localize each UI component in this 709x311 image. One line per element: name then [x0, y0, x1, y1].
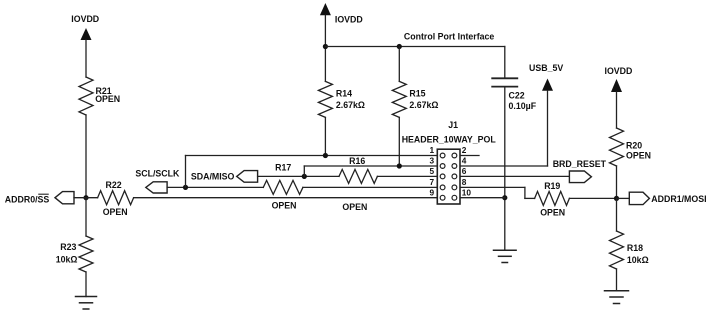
- pin 7: [440, 185, 445, 190]
- wire control port top: [325, 46, 504, 48]
- node top-left junction: [323, 44, 328, 49]
- svg-text:R20: R20: [626, 141, 642, 151]
- wire R19 to ADDR1 node: [569, 197, 616, 199]
- node SCL junction: [183, 185, 188, 190]
- wire R14 to pin1 line: [324, 117, 326, 155]
- svg-text:IOVDD: IOVDD: [335, 14, 363, 24]
- wire SDA junction up to pin3 line: [303, 166, 305, 176]
- pin 5: [440, 174, 445, 179]
- svg-text:1: 1: [430, 145, 435, 155]
- svg-text:R22: R22: [106, 180, 122, 190]
- svg-text:C22: C22: [509, 91, 525, 101]
- wire R15 to pin3 line: [398, 117, 400, 166]
- svg-text:OPEN: OPEN: [103, 207, 128, 217]
- ground (left): [76, 297, 97, 310]
- pin 8: [452, 185, 457, 190]
- svg-text:R14: R14: [336, 89, 352, 99]
- wire pin 1 line: [186, 155, 438, 157]
- wire pin 8 line: [460, 186, 525, 188]
- resistor R17: [263, 163, 303, 211]
- wire R23 to ground: [85, 272, 87, 297]
- power IOVDD (middle): [320, 3, 363, 24]
- node ADDR1 junction: [614, 196, 619, 201]
- svg-text:R18: R18: [627, 243, 643, 253]
- svg-text:5: 5: [430, 166, 435, 176]
- wire USB_5V down: [547, 91, 549, 166]
- svg-text:10kΩ: 10kΩ: [627, 255, 649, 265]
- wire pin 8 drop: [524, 187, 526, 198]
- pin 9: [440, 195, 445, 200]
- svg-text:J1: J1: [448, 120, 458, 130]
- ground (right): [605, 291, 629, 304]
- svg-text:2.67kΩ: 2.67kΩ: [336, 100, 365, 110]
- svg-text:OPEN: OPEN: [272, 201, 297, 211]
- svg-text:OPEN: OPEN: [95, 94, 120, 104]
- node R15 pin3 junction: [397, 163, 402, 168]
- wire IOVDD right to R20: [616, 92, 618, 128]
- pin 6: [452, 174, 457, 179]
- node pin10 ground junction: [502, 195, 507, 200]
- connector J1 HEADER_10WAY_POL: [402, 120, 497, 204]
- resistor R22: [98, 180, 134, 217]
- svg-text:R15: R15: [409, 89, 425, 99]
- pin 10: [452, 195, 457, 200]
- resistor R21: [79, 77, 120, 115]
- wire drop to R19: [525, 197, 535, 199]
- wire pin 4 line: [460, 165, 548, 167]
- port ADDR0/SS: [5, 192, 74, 205]
- svg-text:9: 9: [430, 187, 435, 197]
- svg-text:R23: R23: [60, 242, 76, 252]
- svg-text:OPEN: OPEN: [626, 151, 651, 161]
- wire node to ADDR1 tag: [617, 197, 630, 199]
- svg-text:3: 3: [430, 156, 435, 166]
- wire R16 to header pin 5: [377, 175, 437, 177]
- svg-text:HEADER_10WAY_POL: HEADER_10WAY_POL: [402, 134, 497, 144]
- wire R18 to ground: [616, 269, 618, 291]
- svg-text:SCL/SCLK: SCL/SCLK: [135, 168, 180, 178]
- wire pin 10 stub: [460, 197, 505, 199]
- svg-text:R16: R16: [349, 156, 365, 166]
- ground (middle): [494, 250, 517, 262]
- resistor R23: [56, 236, 93, 272]
- svg-text:2: 2: [462, 145, 467, 155]
- resistor R15: [392, 47, 438, 118]
- node R14 pin1 junction: [323, 153, 328, 158]
- svg-text:10kΩ: 10kΩ: [56, 254, 78, 264]
- wire R17 to header pin 7: [303, 186, 437, 188]
- svg-text:USB_5V: USB_5V: [529, 63, 563, 73]
- port SDA/MISO: [191, 171, 258, 183]
- wire SCL junction up to pin1 line: [185, 156, 187, 188]
- node SDA junction: [302, 174, 307, 179]
- svg-text:BRD_RESET: BRD_RESET: [553, 159, 607, 169]
- svg-text:SDA/MISO: SDA/MISO: [191, 172, 235, 182]
- wire IOVDD mid down to R14: [324, 15, 326, 81]
- port BRD_RESET: [553, 159, 607, 182]
- svg-text:R19: R19: [544, 181, 560, 191]
- port SCL/SCLK: [135, 168, 180, 193]
- svg-text:4: 4: [462, 156, 467, 166]
- wire R21 to node ADDR0: [85, 115, 87, 198]
- svg-text:Control Port Interface: Control Port Interface: [404, 31, 495, 41]
- power IOVDD (left): [71, 14, 99, 40]
- node R15 top junction: [397, 44, 402, 49]
- port ADDR1/MOSI: [629, 192, 706, 204]
- svg-text:ADDR0/SS: ADDR0/SS: [5, 194, 50, 204]
- svg-text:8: 8: [462, 177, 467, 187]
- resistor R14: [318, 81, 365, 117]
- svg-text:R17: R17: [275, 163, 291, 173]
- wire R20 to ADDR1 node: [616, 166, 618, 198]
- svg-text:10: 10: [462, 187, 472, 197]
- svg-text:7: 7: [430, 177, 435, 187]
- wire pin 6 line: [460, 175, 569, 177]
- wire C22 to ground: [504, 87, 506, 251]
- power IOVDD (right): [605, 66, 633, 92]
- resistor R16: [339, 156, 377, 212]
- wire pin 3 line: [304, 165, 437, 167]
- wire SDA tag to R16: [258, 175, 339, 177]
- svg-text:IOVDD: IOVDD: [71, 14, 99, 24]
- wire IOVDD to R21: [85, 40, 87, 77]
- pin 2: [452, 153, 457, 158]
- wire SCL tag to R17: [167, 186, 263, 188]
- node ADDR0 junction: [83, 195, 88, 200]
- pin 4: [452, 164, 457, 169]
- wire node to R18: [616, 198, 618, 231]
- pin 3: [440, 164, 445, 169]
- svg-text:2.67kΩ: 2.67kΩ: [409, 100, 438, 110]
- wire ADDR0 node to R23: [85, 198, 87, 236]
- resistor R19: [535, 181, 570, 218]
- svg-text:0.10µF: 0.10µF: [509, 101, 537, 111]
- resistor R18: [610, 231, 649, 269]
- wire ADDR0 tag to R22: [74, 197, 98, 199]
- capacitor C22: [492, 47, 536, 112]
- svg-text:IOVDD: IOVDD: [605, 66, 633, 76]
- wire R22 to header pin 9: [134, 197, 438, 199]
- svg-text:ADDR1/MOSI: ADDR1/MOSI: [651, 194, 706, 204]
- pin 1: [440, 153, 445, 158]
- power USB_5V: [529, 63, 563, 91]
- resistor R20: [610, 128, 651, 166]
- svg-text:OPEN: OPEN: [540, 208, 565, 218]
- wire pin 2 stub: [460, 155, 479, 157]
- svg-text:6: 6: [462, 166, 467, 176]
- svg-text:OPEN: OPEN: [342, 202, 367, 212]
